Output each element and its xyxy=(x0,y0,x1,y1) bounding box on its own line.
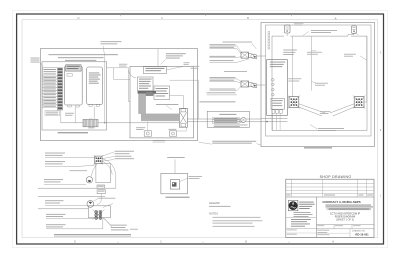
ground wire drop xyxy=(104,57,106,123)
junction box outline xyxy=(161,173,188,193)
signature cells xyxy=(286,232,317,234)
telephone drop wires xyxy=(272,113,274,130)
connector X1 xyxy=(179,108,187,127)
wire kit to connector top xyxy=(170,96,184,109)
camera CAM1 header label xyxy=(223,41,253,44)
wire P2 to connector xyxy=(177,127,187,131)
handset HS1 xyxy=(86,177,92,183)
station right label xyxy=(344,53,356,56)
telephone inner module xyxy=(271,98,284,109)
title block outline xyxy=(286,179,374,237)
cable bundle bar xyxy=(138,91,156,94)
module drop wire xyxy=(97,194,101,205)
intercom speaker SP2 xyxy=(354,97,364,108)
module box 2 xyxy=(97,190,105,194)
elevator inner frame xyxy=(266,25,372,136)
svg-text:C: C xyxy=(160,240,162,244)
cab feed wire xyxy=(310,36,312,91)
svg-text:D: D xyxy=(77,16,79,20)
label 4x4 box left xyxy=(31,57,40,60)
IS1 enclosure box xyxy=(96,164,110,183)
svg-text:A: A xyxy=(335,17,337,21)
border tick bottom 1 xyxy=(117,242,119,244)
kit right label 2 xyxy=(191,65,200,68)
interface box xyxy=(154,86,170,100)
intercom station IS1 xyxy=(95,156,103,164)
rack R1 feet xyxy=(68,105,71,107)
border tick top 1 xyxy=(120,14,122,16)
scale row cells xyxy=(333,224,335,228)
bundle label xyxy=(156,103,179,106)
camera CAM2 xyxy=(241,81,249,87)
rack R1 inner module xyxy=(67,74,72,77)
speaker SP-A xyxy=(284,25,290,33)
PT leader to label xyxy=(180,178,188,182)
wire rack R1 drop xyxy=(74,107,76,123)
room note text xyxy=(48,53,118,56)
border tick bottom 3 xyxy=(288,242,290,244)
telephone bottom terminals xyxy=(272,110,275,113)
revision table rows xyxy=(286,183,374,185)
cab station label xyxy=(315,82,328,85)
wall station WS1 cluster xyxy=(95,211,98,214)
clock label left xyxy=(45,199,64,202)
logo box divider xyxy=(286,217,317,219)
intercom station IS1 labels xyxy=(115,150,135,153)
WS1 lower label xyxy=(111,224,127,227)
traveling cable leader xyxy=(310,125,318,130)
bus connector circle xyxy=(241,117,246,122)
equipment cabinet outline xyxy=(42,62,107,130)
svg-text:B: B xyxy=(247,16,249,20)
stray note text xyxy=(130,228,138,231)
speaker drop wire xyxy=(292,36,294,97)
riser wire lower xyxy=(187,121,261,123)
speaker B drop wire xyxy=(364,36,367,102)
wall station caption xyxy=(54,234,131,235)
speaker cable leader xyxy=(303,32,309,36)
camera CAM1 leader wires xyxy=(237,46,242,53)
IS1 leaders xyxy=(103,152,115,156)
PT right label xyxy=(189,175,203,178)
camera CAM2 wire to frame xyxy=(257,84,266,86)
address box divider xyxy=(286,228,317,230)
station upper label xyxy=(283,49,297,52)
rack R2 label block xyxy=(89,72,100,75)
bell leader xyxy=(94,199,98,201)
ground wire leader xyxy=(103,46,105,57)
cctv interface aux box xyxy=(240,119,244,123)
SP2 cross leaders xyxy=(330,104,354,113)
camera CAM2 cable labels xyxy=(210,76,236,79)
fuse block FB1 xyxy=(83,119,98,127)
consultant address text xyxy=(291,218,311,221)
camera CAM1 wire to frame xyxy=(257,55,266,57)
handset label xyxy=(44,178,63,181)
designed checked cells xyxy=(317,229,329,232)
cctv interface label xyxy=(200,100,236,103)
terminal cabinet label xyxy=(45,111,59,116)
svg-text:CONTRACT A-35186A-SBPS: CONTRACT A-35186A-SBPS xyxy=(322,200,360,204)
camera CAM2 header label xyxy=(224,70,247,73)
title block left column divider xyxy=(315,197,317,237)
border tick top 2 xyxy=(205,14,207,16)
telephone wire L-drop xyxy=(114,68,131,80)
WS1 wire left xyxy=(38,208,89,210)
kit header stub xyxy=(157,49,159,67)
pin connector P1 label xyxy=(136,126,145,129)
terminal strip blocks xyxy=(58,68,63,70)
OEM kit outline xyxy=(130,66,194,137)
label leader to drop wire xyxy=(360,56,367,60)
svg-text:C: C xyxy=(161,16,163,20)
wire kit right upper xyxy=(170,80,199,119)
kit header wire to label xyxy=(167,67,184,71)
amplifier box xyxy=(138,77,154,91)
speaker B leader shadow xyxy=(355,32,359,35)
agency logo xyxy=(288,200,298,210)
bell B1 xyxy=(87,201,94,208)
svg-text:B: B xyxy=(245,240,247,244)
svg-text:(SHEET 1 OF 3): (SHEET 1 OF 3) xyxy=(336,219,354,222)
telephone wire kit entry xyxy=(129,68,131,102)
PT label above xyxy=(167,156,185,159)
scale row bottom divider xyxy=(316,228,374,230)
speaker cable label xyxy=(311,29,337,32)
WS1 drop wire xyxy=(102,219,104,229)
rack R2 feet xyxy=(89,104,92,106)
camera CAM1 header leader xyxy=(252,44,256,49)
pin connector P2 xyxy=(169,131,176,136)
station bus wire 2 xyxy=(38,196,105,198)
cab bus wire lower xyxy=(261,121,287,123)
cable label 2C14 xyxy=(65,112,74,115)
cable label L1 xyxy=(45,152,65,155)
rack R1 header xyxy=(66,65,82,71)
revision header text xyxy=(287,194,291,197)
SP1 cross leaders xyxy=(299,104,325,113)
leader to kit header xyxy=(161,60,166,65)
WS1 leader up right xyxy=(103,204,113,208)
note item 2 xyxy=(213,219,263,222)
bus junction dot xyxy=(266,121,268,123)
agency name text xyxy=(299,201,314,204)
leader from 4x4 label xyxy=(40,62,43,67)
sheet inner frame xyxy=(22,20,378,238)
station bus wire 1 xyxy=(38,187,116,189)
riser wire from bus xyxy=(105,125,187,127)
module box 1 xyxy=(97,185,105,188)
caption leader left xyxy=(199,142,212,144)
kit header box xyxy=(143,67,166,74)
title scale row divider xyxy=(316,223,374,225)
cabinet bus wire xyxy=(61,122,83,124)
cabinet caption xyxy=(58,132,88,133)
telephone station box xyxy=(267,60,288,116)
IS1 drop wires xyxy=(91,164,97,177)
PT feed wire xyxy=(174,159,176,173)
camera CAM2 label underlines xyxy=(210,78,238,80)
agency division text xyxy=(294,211,311,214)
interface caption below xyxy=(212,140,256,143)
SP pair cable label xyxy=(320,110,331,113)
wire rack R2 drop xyxy=(93,106,95,123)
svg-text:D: D xyxy=(74,240,76,244)
WS1 label left rows xyxy=(46,213,66,216)
riser wire upper xyxy=(187,118,261,120)
svg-text:LEGEND: LEGEND xyxy=(209,201,220,205)
contract subtitle rows xyxy=(326,204,372,207)
cab bus wire upper xyxy=(261,118,287,120)
cable label L2 xyxy=(45,160,65,163)
top right leader label xyxy=(166,52,186,55)
svg-text:RD-16-031: RD-16-031 xyxy=(355,232,369,236)
cabinet exit bus xyxy=(98,122,179,124)
ground wire label xyxy=(101,40,122,43)
svg-text:DRAWING NO.: DRAWING NO. xyxy=(352,230,366,233)
terminal list header xyxy=(42,68,57,76)
station terminal ticks xyxy=(268,32,270,34)
border tick bottom 2 xyxy=(202,242,204,244)
horizontal cable bundle xyxy=(141,114,179,122)
telephone terminals xyxy=(272,79,275,82)
telephone wire horizontal xyxy=(107,67,129,69)
intercom speaker SP1 label xyxy=(288,77,301,80)
telephone feed stub xyxy=(277,36,279,60)
bell label xyxy=(98,197,116,200)
camera CAM1 xyxy=(241,52,249,58)
PT module xyxy=(170,180,179,189)
camera CAM1 cable labels xyxy=(210,43,236,46)
pin connector P2 label xyxy=(169,128,177,131)
svg-text:A: A xyxy=(332,240,334,244)
traveling cable label xyxy=(318,127,344,130)
camera CAM1 label underlines xyxy=(210,45,238,47)
WS1 cross lines xyxy=(93,210,105,220)
telephone station text xyxy=(270,61,286,64)
speaker SP-A label xyxy=(294,22,304,25)
terminal list rows xyxy=(42,76,57,79)
cable note mid xyxy=(70,169,88,172)
svg-text:SHOP DRAWING: SHOP DRAWING xyxy=(320,175,352,179)
junction box caption xyxy=(166,197,190,198)
camera CAM2 leader wires xyxy=(237,79,242,82)
vertical cable bundle xyxy=(138,94,145,114)
rack R1 xyxy=(64,66,82,105)
note item 3 xyxy=(213,225,255,228)
elevator hoistway frame xyxy=(261,23,375,147)
OEM kit caption xyxy=(153,139,165,142)
camera lower cable label xyxy=(207,91,236,94)
station mid label xyxy=(307,51,322,54)
speaker SP-B stub xyxy=(348,33,354,36)
svg-text:NOTES: NOTES xyxy=(209,212,218,216)
cctv interface caption xyxy=(214,124,248,127)
wire telephone line label xyxy=(119,63,127,66)
elevator cab outline xyxy=(272,36,367,130)
speaker SP-B xyxy=(351,26,356,33)
fuse block label xyxy=(88,126,94,129)
wire bundle to P1 xyxy=(147,122,149,131)
equipment room boundary xyxy=(40,49,197,141)
legend item SP xyxy=(209,205,231,208)
cctv interface box xyxy=(207,111,249,127)
wire curve into amp xyxy=(129,71,137,79)
WS1 label leaders xyxy=(103,217,112,226)
intercom speaker SP1 xyxy=(289,97,299,108)
rack R2 xyxy=(87,67,103,104)
border tick top 3 xyxy=(291,14,293,16)
elevator caption xyxy=(304,147,332,148)
connector block dark xyxy=(145,92,153,96)
revision table columns xyxy=(291,179,293,197)
IS1 wire right curve xyxy=(102,159,116,189)
kit right label 1 xyxy=(184,61,190,64)
wall station WS1 enclosure xyxy=(89,206,111,218)
pin connector P1 xyxy=(144,131,151,136)
speaker SP-A stub xyxy=(286,33,288,36)
drawing number cell divider xyxy=(349,229,351,238)
note item 1 xyxy=(213,216,261,219)
caption leader right xyxy=(257,144,261,146)
